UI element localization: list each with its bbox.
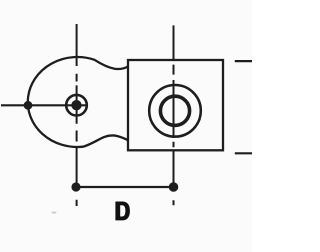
right centerline	[173, 25, 175, 205]
eye ring	[66, 95, 87, 116]
lug outline (eye)	[28, 57, 128, 147]
dimension dot right	[169, 182, 179, 192]
dimension dot left	[71, 182, 80, 191]
leader dot on arc	[24, 101, 33, 110]
right extension line bottom	[235, 152, 252, 154]
faint scan artifact	[52, 212, 57, 214]
right extension line top	[235, 60, 252, 62]
horizontal leader line	[1, 104, 88, 106]
left centerline	[76, 24, 78, 206]
eye center dot	[71, 100, 81, 110]
bore inner circle	[160, 96, 189, 125]
dimension line D	[76, 186, 174, 188]
label D	[115, 202, 129, 221]
square body	[128, 60, 223, 150]
bore outer circle	[149, 85, 201, 137]
